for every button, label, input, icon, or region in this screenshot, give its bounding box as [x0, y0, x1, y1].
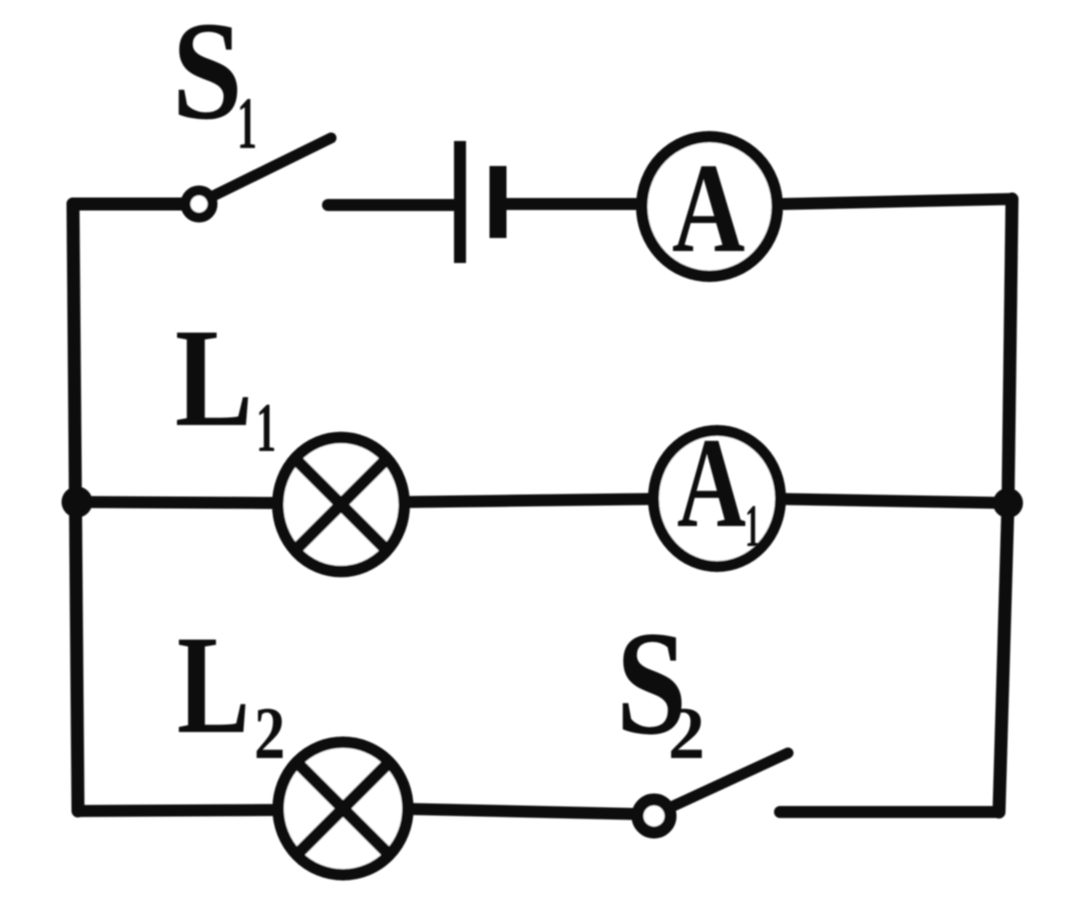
- svg-text:1: 1: [256, 390, 276, 467]
- svg-text:A: A: [677, 411, 746, 554]
- svg-text:L: L: [177, 607, 250, 763]
- svg-text:2: 2: [254, 693, 285, 775]
- svg-text:2: 2: [668, 693, 705, 775]
- svg-text:1: 1: [237, 83, 257, 165]
- svg-text:S: S: [172, 0, 243, 149]
- svg-text:L: L: [175, 300, 253, 456]
- svg-text:1: 1: [745, 493, 760, 559]
- svg-text:A: A: [672, 137, 745, 279]
